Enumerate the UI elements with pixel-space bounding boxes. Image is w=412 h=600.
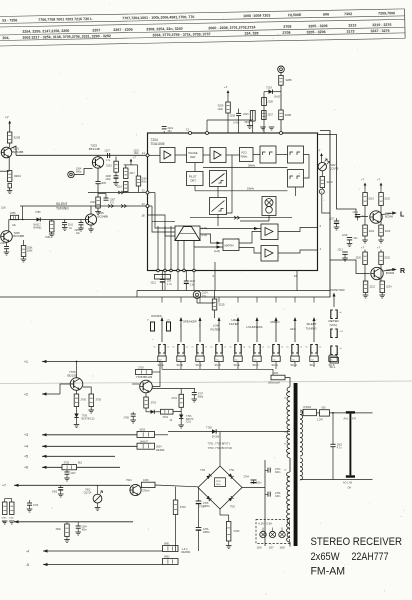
svg-text:4980u: 4980u xyxy=(203,531,210,534)
bridge rectifier xyxy=(198,466,242,509)
op-amp U7204 IC outline TDA1005 xyxy=(148,133,318,271)
capacitor 2207 xyxy=(98,194,116,205)
capacitor 2210 xyxy=(184,271,196,291)
label monitor xyxy=(330,288,345,292)
label 7202 xyxy=(330,163,339,170)
svg-text:2203: 2203 xyxy=(243,113,249,116)
svg-text:5v: 5v xyxy=(249,347,251,349)
svg-text:1006 -1008 7203: 1006 -1008 7203 xyxy=(243,14,270,19)
svg-text:3223: 3223 xyxy=(385,230,391,233)
svg-text:7791: 7791 xyxy=(229,469,235,472)
svg-text:3207: 3207 xyxy=(268,114,274,117)
svg-text:14: 14 xyxy=(142,202,146,206)
label silent tuning 2 xyxy=(306,322,318,330)
title text xyxy=(311,536,403,578)
svg-text:280(m±)uH: 280(m±)uH xyxy=(268,381,280,384)
label afc xyxy=(290,327,296,331)
diode 7203b xyxy=(266,86,282,99)
label 7708 xyxy=(136,375,152,379)
svg-text:BY206: BY206 xyxy=(212,436,220,439)
switch SK-B xyxy=(173,297,189,367)
svg-text:+7: +7 xyxy=(377,246,381,250)
fuse 5862 xyxy=(163,555,179,564)
svg-text:4980u: 4980u xyxy=(203,505,210,508)
svg-text:2702: 2702 xyxy=(216,481,222,483)
label output transistors xyxy=(208,442,232,450)
wire t2 emitter bus xyxy=(132,384,195,394)
svg-text:400n: 400n xyxy=(82,530,88,532)
supply +7 led xyxy=(317,148,323,159)
svg-text:+1: +1 xyxy=(24,360,28,364)
transistor 7205 xyxy=(85,214,96,225)
svg-text:SK-D: SK-D xyxy=(215,363,221,367)
switch on/off contacts xyxy=(147,320,171,332)
block lamp driver xyxy=(262,197,276,216)
svg-text:3703: 3703 xyxy=(151,402,157,405)
wire xyxy=(9,143,11,147)
label 7204 TDA1005 xyxy=(151,138,165,146)
voltage selector lamp xyxy=(343,411,357,489)
wire bus +1 xyxy=(24,360,160,364)
svg-text:330k: 330k xyxy=(56,528,62,531)
svg-text:18: 18 xyxy=(142,214,146,218)
svg-text:3206: 3206 xyxy=(285,113,292,117)
svg-text:3219: 3219 xyxy=(117,186,123,189)
wire switch bus xyxy=(162,362,314,370)
svg-text:22AH777: 22AH777 xyxy=(352,551,389,563)
svg-text:3005: 3005 xyxy=(2,518,8,520)
resistor 3161 xyxy=(45,220,55,240)
svg-text:7708 BD139: 7708 BD139 xyxy=(136,375,152,379)
wire xyxy=(227,113,229,133)
svg-text:2260: 2260 xyxy=(0,243,6,245)
svg-text:PILOT: PILOT xyxy=(189,175,197,179)
svg-text:1008: 1008 xyxy=(280,547,286,549)
transistor 7206 xyxy=(1,231,13,243)
resistor 3226 xyxy=(379,250,391,265)
capacitor 2261 xyxy=(62,220,74,231)
capacitor 2703 xyxy=(265,468,281,475)
wire filter rail xyxy=(264,460,266,546)
svg-text:1007: 1007 xyxy=(269,547,275,549)
diode box 3004 xyxy=(137,443,165,452)
svg-text:204,: 204, xyxy=(2,36,9,40)
wire bus +6 xyxy=(24,466,62,470)
label meter xyxy=(329,319,339,327)
resistor 3215 xyxy=(212,291,225,319)
wire bus +8 xyxy=(2,520,133,524)
svg-text:11: 11 xyxy=(142,151,145,155)
pin 2 xyxy=(320,224,322,228)
switch monitor contact 3 xyxy=(331,346,343,355)
capacitor 2705 xyxy=(196,488,211,528)
wire xyxy=(11,146,17,155)
label 7206 xyxy=(14,231,25,238)
svg-text:MONITOR: MONITOR xyxy=(330,288,345,292)
svg-text:3225: 3225 xyxy=(384,198,390,201)
svg-text:+7: +7 xyxy=(2,484,6,488)
zener 7706b xyxy=(178,412,184,428)
wire xyxy=(264,92,269,133)
wire matrix feeds xyxy=(157,226,196,291)
svg-text:(VOL): (VOL) xyxy=(330,323,338,327)
wire bus +4 xyxy=(24,445,137,449)
svg-text:5v: 5v xyxy=(211,347,213,349)
resistor 3205 xyxy=(279,76,292,86)
wire to 1005 xyxy=(272,369,274,375)
LED 7202 xyxy=(318,159,330,171)
capacitor 2217 xyxy=(329,180,339,230)
svg-text:3728: 3728 xyxy=(64,461,70,464)
wire 19khz xyxy=(195,186,288,191)
capacitor 2704 xyxy=(244,476,262,488)
label 110k xyxy=(1,208,7,210)
svg-text:SK-C: SK-C xyxy=(196,363,202,367)
wire xyxy=(83,387,91,394)
svg-text:2701: 2701 xyxy=(172,397,178,400)
svg-text:+7: +7 xyxy=(317,148,321,152)
svg-text:5v: 5v xyxy=(154,347,156,349)
wire monitor arrow xyxy=(333,293,336,308)
wire demod link xyxy=(217,187,219,198)
svg-text:3205: 3205 xyxy=(285,78,292,82)
capacitor 2214 xyxy=(193,291,208,304)
capacitor 2203 xyxy=(243,111,255,134)
svg-text:7703 ,770k BFX71R: 7703 ,770k BFX71R xyxy=(208,446,232,450)
svg-text:2255: 2255 xyxy=(10,212,16,215)
svg-text:3709: 3709 xyxy=(180,505,186,509)
bridge diode labels xyxy=(199,469,235,509)
switch SK-G xyxy=(268,297,284,367)
pin top b xyxy=(206,132,209,135)
svg-text:7701: 7701 xyxy=(200,469,206,472)
svg-text:680p: 680p xyxy=(198,396,204,399)
svg-text:680p: 680p xyxy=(76,171,82,174)
resistor 3706 xyxy=(74,394,86,407)
svg-text:12: 12 xyxy=(186,128,190,132)
wire pilot tap xyxy=(190,216,292,219)
ground xyxy=(7,188,13,194)
switch SK-E xyxy=(230,297,246,367)
resistor 2701 xyxy=(172,394,184,407)
label low filter xyxy=(211,323,221,331)
svg-text:SK-H: SK-H xyxy=(291,363,297,367)
diode 7705 xyxy=(206,425,220,438)
transistor 7203 xyxy=(92,157,103,168)
svg-text:SK-F: SK-F xyxy=(253,363,259,367)
svg-text:TUNING: TUNING xyxy=(306,326,318,330)
transistor 7209 xyxy=(371,267,395,279)
ground xyxy=(269,127,275,130)
capacitor 2706c xyxy=(265,492,281,499)
svg-text:L: L xyxy=(400,211,405,218)
wire xyxy=(9,127,11,133)
ground xyxy=(260,124,266,130)
wire decoder section frame xyxy=(0,131,330,298)
label speaker xyxy=(180,319,201,327)
wire xyxy=(280,73,282,76)
svg-text:3210: 3210 xyxy=(106,164,112,168)
svg-text:3219: 3219 xyxy=(368,198,374,201)
wire pin13 int xyxy=(149,193,175,229)
supplies L stage xyxy=(361,178,382,189)
svg-text:3217: 3217 xyxy=(130,172,136,175)
svg-text:3161: 3161 xyxy=(45,236,51,239)
svg-text:FILTER: FILTER xyxy=(229,322,239,326)
resistor 600 xyxy=(317,407,330,422)
svg-text:7904: 7904 xyxy=(126,479,132,482)
svg-text:3222: 3222 xyxy=(370,286,376,289)
pin 12 xyxy=(186,128,192,135)
svg-text:2297 - 2309: 2297 - 2309 xyxy=(113,28,132,32)
pin 16 xyxy=(294,274,298,278)
wire xyxy=(280,120,282,133)
svg-text:TDA1005: TDA1005 xyxy=(151,142,165,146)
capacitor 2218 xyxy=(342,234,358,247)
wire t1 base xyxy=(60,384,70,394)
svg-text:LOUDNESS: LOUDNESS xyxy=(247,325,263,329)
capacitor 2707 xyxy=(192,389,204,403)
svg-text:+7: +7 xyxy=(224,85,228,89)
wire xyxy=(280,85,282,110)
wire tap down xyxy=(332,412,334,444)
diode 7255 xyxy=(34,217,43,229)
wire bus +5 xyxy=(24,455,115,459)
wires L stage xyxy=(365,206,381,226)
resistor 3709 xyxy=(173,487,186,551)
svg-text:2211: 2211 xyxy=(151,282,157,285)
svg-text:220n: 220n xyxy=(256,482,262,485)
terminal test point xyxy=(68,169,93,178)
svg-text:400n: 400n xyxy=(141,180,147,183)
svg-text:SK-A: SK-A xyxy=(158,363,164,367)
pin 14 xyxy=(142,202,150,208)
svg-text:3213: 3213 xyxy=(348,23,356,27)
diode box 6003 xyxy=(137,428,168,443)
wire bus +2 xyxy=(24,392,60,396)
svg-text:270R: 270R xyxy=(234,530,240,533)
svg-text:3706: 3706 xyxy=(81,399,87,402)
svg-text:1005: 1005 xyxy=(273,372,279,375)
svg-text:-4: -4 xyxy=(26,549,29,553)
resistor 3207 xyxy=(262,111,274,120)
svg-text:MATRIX: MATRIX xyxy=(225,244,235,247)
resistor 3728 xyxy=(62,461,120,469)
transformer T5001 core xyxy=(294,383,298,546)
resistor 2209 xyxy=(155,275,171,280)
svg-text:7255: 7255 xyxy=(35,211,41,214)
capacitor 2211 xyxy=(151,271,173,291)
label 7255 xyxy=(35,211,41,214)
resistor 3204b xyxy=(8,183,11,188)
wire to primary xyxy=(285,378,290,388)
svg-text:OH: OH xyxy=(348,486,352,489)
resistor 3705 xyxy=(89,394,102,407)
wire xyxy=(173,407,181,411)
svg-text:38kHz: 38kHz xyxy=(248,164,256,167)
wire from edge xyxy=(0,170,9,172)
svg-text:6.2V~ 0.3A: 6.2V~ 0.3A xyxy=(259,522,273,526)
zener 7709 xyxy=(74,407,80,428)
svg-text:-5: -5 xyxy=(26,563,29,567)
capacitor 2708 xyxy=(124,412,147,423)
wire xyxy=(146,408,151,412)
switch monitor contact 2 xyxy=(331,329,344,338)
svg-text:600: 600 xyxy=(322,407,327,410)
capacitor 2213 xyxy=(338,249,348,261)
wire to R stage xyxy=(330,260,370,274)
block pilot detector xyxy=(187,172,204,186)
wire top bus xyxy=(207,120,253,133)
resistor 3203 xyxy=(7,132,20,143)
svg-text:3220: 3220 xyxy=(356,257,362,260)
resistor 3225 xyxy=(379,189,391,206)
switch SK-F xyxy=(249,297,265,367)
capacitor 2706b xyxy=(196,528,211,552)
transistor 7708 xyxy=(140,380,153,393)
diode 7703 xyxy=(151,410,161,414)
svg-text:2407: 2407 xyxy=(71,473,77,475)
svg-text:MONO: MONO xyxy=(271,320,281,324)
resistor 3209 xyxy=(218,102,231,113)
svg-text:7792: 7792 xyxy=(230,506,236,509)
svg-text:2218: 2218 xyxy=(342,234,348,237)
svg-text:110k: 110k xyxy=(218,107,224,111)
svg-text:400n: 400n xyxy=(275,471,281,474)
resistor 3222 xyxy=(363,281,376,298)
resistor 3213 xyxy=(320,177,333,188)
switch SK-A xyxy=(154,297,170,367)
svg-text:ON/OFF: ON/OFF xyxy=(151,314,162,318)
svg-text:22n: 22n xyxy=(76,232,81,235)
block matrix2 xyxy=(223,239,239,251)
svg-text:110k: 110k xyxy=(1,208,7,210)
svg-text:0.43u: 0.43u xyxy=(233,122,240,125)
supply +7 node left xyxy=(5,116,11,127)
svg-text:7203: 7203 xyxy=(266,86,272,90)
svg-text:3718: 3718 xyxy=(138,366,144,369)
switch monitor contact 1 xyxy=(331,310,343,319)
fuse VL5001 xyxy=(303,406,317,415)
wire r3718 xyxy=(130,372,160,387)
wire node A down xyxy=(322,194,330,213)
capacitor 2207a xyxy=(105,150,111,163)
svg-text:7705: 7705 xyxy=(206,425,212,429)
node A xyxy=(319,189,324,194)
wire pin5 int xyxy=(215,216,269,271)
resistor 3204 xyxy=(7,171,21,182)
svg-text:2708: 2708 xyxy=(283,25,291,29)
switch SK-D xyxy=(211,297,227,367)
svg-text:3203: 3203 xyxy=(14,136,21,140)
svg-text:AA1: AA1 xyxy=(344,417,349,420)
label 7903 xyxy=(84,489,93,495)
wire rect feed xyxy=(168,431,290,433)
wire ic chain xyxy=(149,154,288,157)
svg-text:AO 1 A9: AO 1 A9 xyxy=(343,482,353,485)
svg-text:470: 470 xyxy=(352,417,357,420)
wire to bridge xyxy=(155,485,198,487)
capacitor 2402 xyxy=(52,485,64,497)
wire bridge top xyxy=(219,432,221,467)
svg-text:2402: 2402 xyxy=(52,492,58,494)
wire pins down xyxy=(215,271,297,291)
svg-text:2207: 2207 xyxy=(105,150,111,153)
svg-text:5v: 5v xyxy=(306,347,308,349)
resistor 330k xyxy=(56,522,70,543)
svg-text:5v: 5v xyxy=(287,347,289,349)
svg-text:5v: 5v xyxy=(230,347,232,349)
svg-text:3204: 3204 xyxy=(14,174,21,178)
svg-text:3247 - 3276: 3247 - 3276 xyxy=(370,29,389,33)
switch SK-I xyxy=(306,297,322,367)
svg-text:BC548B: BC548B xyxy=(13,150,24,154)
wire xyxy=(321,188,323,190)
svg-text:3205 - 3206: 3205 - 3206 xyxy=(306,30,325,34)
transistor 7904 xyxy=(126,479,141,496)
svg-text:PHASE: PHASE xyxy=(188,151,197,155)
capacitor 2256 xyxy=(75,220,84,236)
parts cross-reference table xyxy=(0,9,405,46)
wires 3005 xyxy=(2,499,15,525)
label 7709 xyxy=(82,414,96,420)
svg-text:3219 - 2276: 3219 - 2276 xyxy=(372,23,391,27)
svg-text:5v: 5v xyxy=(173,347,175,349)
capacitor 2901 xyxy=(330,443,342,479)
wire xyxy=(145,393,147,397)
resistor 3242 xyxy=(90,197,100,208)
svg-text:19kHz: 19kHz xyxy=(247,188,255,191)
capacitor 2706a xyxy=(27,500,39,512)
wire to matrix xyxy=(218,215,269,227)
svg-text:6003: 6003 xyxy=(140,428,146,431)
op-amp amp2 block xyxy=(210,148,226,163)
svg-text:3702: 3702 xyxy=(163,416,169,419)
label 7205 xyxy=(98,211,109,218)
svg-text:TUNING: TUNING xyxy=(56,207,69,211)
svg-text:BA317: BA317 xyxy=(275,96,283,99)
capacitor 2702 xyxy=(215,478,226,487)
svg-text:100n: 100n xyxy=(275,495,281,498)
svg-text:2208: 2208 xyxy=(268,101,274,104)
transistor 7207 xyxy=(370,211,394,223)
wire 38khz xyxy=(203,164,288,167)
svg-text:5v: 5v xyxy=(268,347,270,349)
resistor 3254 xyxy=(21,240,33,262)
inductor 1005 xyxy=(268,372,285,384)
wire ac bottom xyxy=(300,479,373,481)
svg-text:BC548: BC548 xyxy=(385,215,393,219)
svg-text:RE4561: RE4561 xyxy=(182,551,192,554)
svg-text:+7: +7 xyxy=(5,116,9,120)
block matrix decoder xyxy=(175,226,200,241)
label loudness xyxy=(247,325,263,329)
svg-text:3705: 3705 xyxy=(96,399,102,402)
svg-text:RE4681: RE4681 xyxy=(156,449,165,452)
resistor 3718 xyxy=(136,366,153,374)
svg-text:1006: 1006 xyxy=(143,479,149,482)
scan fold line xyxy=(0,381,412,384)
wire bus -4 xyxy=(26,549,163,553)
svg-text:33n: 33n xyxy=(168,130,173,133)
ground xyxy=(95,208,101,215)
wire t1 up xyxy=(76,361,78,378)
svg-text:CQY24: CQY24 xyxy=(84,492,93,495)
svg-text:3173: 3173 xyxy=(346,30,354,34)
svg-text:2704: 2704 xyxy=(244,476,250,479)
capacitor 2208 xyxy=(230,109,242,134)
wire matrix2 out a xyxy=(239,232,261,244)
